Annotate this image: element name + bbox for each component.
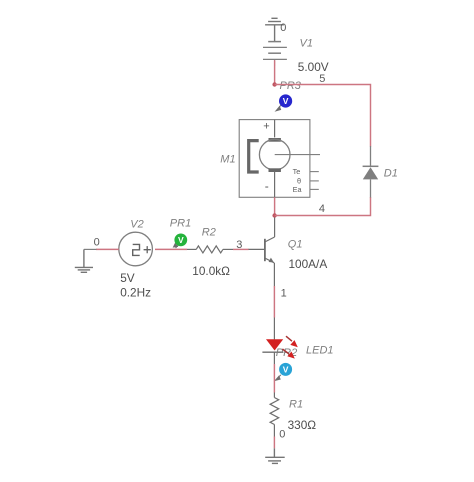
svg-text:R2: R2 [202, 227, 216, 239]
motor M1 [239, 120, 320, 198]
transistor Q1 [248, 218, 275, 287]
junction node 4 [272, 213, 276, 217]
svg-text:0.2Hz: 0.2Hz [120, 285, 151, 299]
svg-text:100A/A: 100A/A [289, 257, 328, 271]
svg-text:0: 0 [279, 429, 285, 441]
wire net 1 (emitter to LED) [273, 286, 275, 318]
svg-text:V2: V2 [130, 219, 143, 231]
svg-text:θ: θ [297, 176, 301, 185]
wire LED to R1 [273, 364, 275, 393]
svg-text:V1: V1 [300, 38, 313, 50]
source V2 [119, 232, 153, 266]
wire ground pin left [84, 248, 97, 250]
svg-text:PR3: PR3 [280, 80, 302, 92]
svg-text:V: V [178, 235, 184, 245]
wire motor to node4 [274, 197, 276, 215]
wire V2 left to ground [96, 248, 119, 250]
ground top [265, 18, 284, 41]
svg-text:0: 0 [94, 236, 100, 248]
svg-text:3: 3 [236, 239, 242, 251]
wire net 3 (R2 to base) [233, 248, 249, 250]
svg-text:Q1: Q1 [288, 239, 303, 251]
svg-text:1: 1 [281, 288, 287, 300]
junction node 5 [272, 82, 276, 86]
ground left [75, 249, 93, 272]
probe PR2 [275, 363, 292, 381]
diode D1 [363, 146, 379, 198]
probe PR3 [276, 94, 292, 111]
svg-text:PR1: PR1 [170, 218, 191, 230]
LED1 emission arrows [282, 336, 297, 358]
svg-text:LED1: LED1 [306, 345, 334, 357]
wire battery to node5 junction [274, 60, 276, 84]
ground bottom [265, 448, 285, 463]
wire net 5 (junction right, down to D1) [275, 85, 371, 147]
LED LED1 [262, 318, 283, 365]
battery V1 [263, 42, 287, 66]
svg-text:M1: M1 [220, 154, 235, 166]
svg-text:10.0kΩ: 10.0kΩ [192, 264, 230, 278]
resistor R2 [187, 246, 233, 253]
wire R1 to ground [273, 437, 275, 449]
svg-text:D1: D1 [384, 167, 398, 179]
probe PR1 [174, 234, 188, 249]
svg-text:Ea: Ea [293, 185, 303, 194]
svg-text:V: V [283, 365, 289, 375]
svg-text:4: 4 [319, 203, 325, 215]
svg-text:0: 0 [280, 22, 286, 34]
svg-text:5V: 5V [120, 271, 135, 285]
resistor R1 [270, 393, 279, 437]
svg-text:-: - [265, 179, 269, 193]
svg-text:Te: Te [293, 167, 301, 176]
svg-text:5.00V: 5.00V [298, 60, 329, 74]
wire net 4 (junction to diode bottom) [275, 197, 371, 216]
svg-text:R1: R1 [289, 399, 303, 411]
svg-text:+: + [263, 121, 269, 133]
svg-text:5: 5 [319, 73, 325, 85]
wire V2 to R2 [155, 248, 187, 250]
svg-text:330Ω: 330Ω [288, 418, 317, 432]
svg-text:V: V [283, 96, 289, 106]
